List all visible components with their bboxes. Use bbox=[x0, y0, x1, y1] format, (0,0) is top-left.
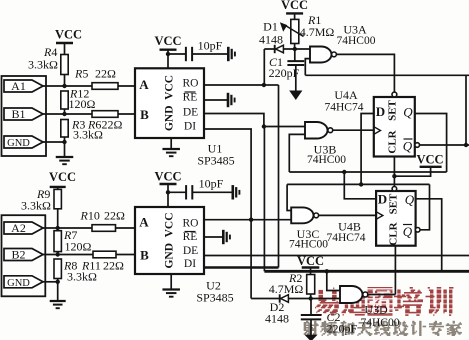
node D2/R2/C2 bbox=[309, 296, 313, 300]
wire R12 to node B1 bbox=[64, 109, 66, 114]
wire U3A output to SET1 bbox=[336, 54, 394, 92]
node A2 junction bbox=[56, 226, 60, 230]
wire U3C output to clock2 bbox=[319, 214, 377, 216]
node D1/R1/C1 bbox=[293, 47, 297, 51]
svg-text:B: B bbox=[140, 107, 149, 122]
svg-text:74HC00: 74HC00 bbox=[307, 154, 346, 166]
wire R3 to GND row bbox=[64, 137, 66, 157]
svg-text:D: D bbox=[378, 192, 387, 207]
svg-text:A1: A1 bbox=[11, 79, 26, 93]
svg-text:DE: DE bbox=[183, 107, 198, 119]
power VCC (R2 top) bbox=[302, 266, 320, 268]
power VCC (R9 top) bbox=[50, 186, 66, 188]
svg-text:22Ω: 22Ω bbox=[95, 67, 116, 81]
wire VCC to R2 bbox=[310, 268, 312, 275]
net flag B1 bbox=[4, 108, 43, 120]
wire DI1 bbox=[204, 129, 251, 220]
node U2 VCC junction bbox=[166, 190, 170, 194]
capacitor 10pF (U2) bbox=[185, 185, 187, 199]
nand gate U3B 74HC00 bbox=[305, 122, 328, 139]
svg-text:3.3kΩ: 3.3kΩ bbox=[67, 270, 97, 284]
capacitor 10pF (U1) bbox=[185, 47, 187, 61]
capacitor C2 220pF bbox=[301, 314, 321, 316]
svg-text:SP3485: SP3485 bbox=[196, 291, 233, 305]
node CLR1/VCC junction bbox=[392, 174, 396, 178]
wire GND2 row bbox=[42, 281, 58, 283]
wire Q2bar to L3 bbox=[420, 184, 430, 229]
svg-text:22Ω: 22Ω bbox=[103, 259, 124, 273]
ground (10pF U2) bbox=[232, 185, 235, 199]
svg-text:74HC00: 74HC00 bbox=[337, 35, 376, 47]
svg-text:10pF: 10pF bbox=[199, 177, 224, 191]
wire B2 row bbox=[42, 254, 93, 256]
svg-text:74HC74: 74HC74 bbox=[325, 102, 364, 114]
svg-text:4.7MΩ: 4.7MΩ bbox=[300, 25, 335, 39]
svg-text:VCC: VCC bbox=[416, 153, 443, 167]
resistor R4 bbox=[61, 55, 68, 75]
node RO2 junction bbox=[249, 218, 253, 222]
power VCC (R1 top) bbox=[286, 12, 303, 14]
net flag B2 bbox=[4, 249, 43, 261]
svg-text:GND VCC: GND VCC bbox=[164, 75, 176, 131]
ground (10pF U1) bbox=[227, 47, 230, 61]
wire VCC to U2 bbox=[167, 184, 169, 207]
node GND junction bbox=[62, 140, 66, 144]
svg-text:RO: RO bbox=[183, 78, 199, 90]
node GND2 junction bbox=[56, 280, 60, 284]
svg-text:Q: Q bbox=[403, 105, 413, 120]
svg-text:VCC: VCC bbox=[281, 0, 308, 12]
svg-text:4148: 4148 bbox=[259, 32, 283, 46]
resistor R8 bbox=[54, 259, 61, 279]
net flag A1 bbox=[4, 80, 43, 92]
ground GND2 bbox=[50, 300, 66, 302]
wire RO1 bbox=[204, 84, 264, 86]
wire V2 DE1 net down bbox=[263, 127, 265, 268]
svg-text:GND: GND bbox=[7, 138, 30, 149]
svg-text:SET: SET bbox=[388, 193, 400, 214]
wire cap to ground bbox=[192, 53, 227, 55]
svg-text:R10: R10 bbox=[80, 209, 100, 223]
node L3 junction bbox=[359, 182, 363, 186]
svg-text:3.3kΩ: 3.3kΩ bbox=[73, 128, 103, 142]
wire L1 net Q1 bbox=[289, 171, 446, 173]
svg-text:4.7MΩ: 4.7MΩ bbox=[269, 282, 304, 296]
ground (RE2) bbox=[222, 230, 225, 244]
wire C2 to ground bbox=[310, 319, 312, 335]
watermark text layer bbox=[333, 288, 334, 290]
svg-text:Q: Q bbox=[403, 139, 413, 154]
wire R1 to node bbox=[294, 44, 296, 50]
svg-text:74HC00: 74HC00 bbox=[289, 239, 328, 251]
wire R11 to U2.B bbox=[116, 254, 135, 256]
wire RE2 stub bbox=[204, 236, 223, 238]
svg-text:10pF: 10pF bbox=[198, 39, 223, 53]
resistor R12 bbox=[61, 91, 68, 109]
wire DE1 to U3B input bbox=[264, 126, 305, 128]
wire VCC to R4 bbox=[64, 43, 66, 55]
svg-text:RE: RE bbox=[183, 92, 198, 104]
svg-text:R5: R5 bbox=[74, 67, 88, 81]
wire VCC to R9 bbox=[57, 187, 59, 190]
transceiver U1 SP3485 box bbox=[135, 68, 204, 138]
svg-text:B2: B2 bbox=[11, 248, 25, 262]
node B2 junction bbox=[56, 252, 60, 256]
wire V3 RO1 net down bbox=[278, 85, 280, 268]
wire GND row bbox=[42, 141, 65, 143]
transceiver U2 SP3485 box bbox=[135, 207, 204, 274]
ground (C1) bbox=[289, 91, 302, 101]
node L1 junction bbox=[342, 170, 346, 174]
svg-text:Q: Q bbox=[403, 224, 413, 239]
svg-text:CLR: CLR bbox=[387, 129, 399, 153]
svg-text:U4A: U4A bbox=[334, 88, 358, 102]
svg-text:SP3485: SP3485 bbox=[197, 154, 234, 168]
wire Q2 feedback bbox=[416, 199, 442, 271]
diode D2 4148 bbox=[279, 294, 281, 302]
wire R2 to D2 node bbox=[310, 294, 312, 299]
diode D1 4148 bbox=[274, 45, 276, 53]
wire to C3 cap bbox=[168, 53, 186, 55]
wire VCC to R1 bbox=[294, 13, 296, 19]
wire B1 row bbox=[42, 113, 92, 115]
svg-text:RO: RO bbox=[183, 218, 199, 230]
svg-text:B: B bbox=[140, 248, 149, 263]
svg-text:120Ω: 120Ω bbox=[69, 97, 96, 111]
resistor R2 bbox=[307, 275, 315, 295]
wire U1 GND pin bbox=[170, 138, 172, 149]
svg-text:A: A bbox=[139, 77, 149, 92]
wire U3D output bbox=[368, 294, 396, 296]
wire R8 to GND2 row bbox=[57, 279, 59, 302]
svg-text:120Ω: 120Ω bbox=[65, 240, 92, 254]
ground (RE1) bbox=[227, 93, 230, 107]
nand gate U3C 74HC00 bbox=[291, 207, 313, 223]
svg-text:U3D: U3D bbox=[364, 303, 388, 317]
resistor R6 bbox=[92, 111, 118, 118]
wire VCC mid stem bbox=[394, 167, 430, 176]
svg-text:Q: Q bbox=[405, 192, 415, 207]
svg-text:CLR: CLR bbox=[388, 221, 400, 245]
svg-text:DI: DI bbox=[184, 258, 196, 270]
wire D2 node to C2 bbox=[310, 299, 312, 316]
node RO1/D1 junction bbox=[262, 83, 266, 87]
wire cap2 to ground bbox=[192, 191, 232, 193]
wire Q1bar out bbox=[420, 144, 469, 146]
node A1 junction bbox=[62, 84, 66, 88]
resistor R7 bbox=[54, 231, 61, 252]
svg-text:GND: GND bbox=[7, 278, 30, 289]
wire DE2 long bbox=[204, 255, 469, 257]
svg-text:DE: DE bbox=[183, 245, 198, 257]
wire RE1 stub bbox=[204, 99, 227, 101]
wire V1 to D2 node bbox=[250, 220, 252, 299]
wire R4 to node A1 bbox=[64, 75, 66, 87]
wire DE1 bbox=[204, 114, 264, 127]
wire L1 to U3B input2 bbox=[289, 134, 305, 172]
power VCC (mid right) bbox=[420, 166, 442, 168]
ground GND1 bbox=[56, 156, 74, 158]
net flag GND2 bbox=[4, 276, 43, 288]
power VCC (U1 top) bbox=[160, 49, 177, 51]
node U1 VCC junction bbox=[166, 52, 170, 56]
wire thick stub up bbox=[263, 268, 265, 272]
wire D1 row bbox=[264, 48, 310, 50]
wire A2 row bbox=[42, 227, 92, 229]
power VCC (U2 top) bbox=[160, 183, 177, 185]
svg-text:74HC00: 74HC00 bbox=[361, 317, 400, 329]
wire net Q1bar long line bbox=[305, 74, 469, 76]
svg-text:22Ω: 22Ω bbox=[102, 118, 123, 132]
wire C1 to ground bbox=[295, 65, 297, 91]
wire U3A input2 corner bbox=[305, 59, 310, 76]
flipflop U4A 74HC74 box bbox=[374, 97, 415, 157]
wire L1 to U4B.D bbox=[344, 172, 376, 199]
wire Q1bar right drop bbox=[465, 75, 467, 145]
wire R10 to U2.A bbox=[116, 227, 136, 229]
svg-text:VCC: VCC bbox=[297, 254, 324, 268]
ground (U1) bbox=[162, 148, 180, 150]
connector box J2 bbox=[2, 215, 46, 296]
wire U2 GND pin bbox=[170, 274, 172, 290]
svg-text:SET: SET bbox=[387, 99, 399, 120]
wire thick net line bbox=[264, 270, 469, 273]
capacitor C1 220pF bbox=[287, 60, 304, 62]
wire to U3D input1 bbox=[327, 271, 340, 290]
wire RO2 to U3C bbox=[204, 219, 291, 221]
wire Q1 feedback bbox=[415, 114, 447, 173]
resistor R1 bbox=[291, 19, 299, 43]
wire L3 net Q2bar bbox=[287, 183, 429, 185]
net flag A2 bbox=[4, 222, 43, 234]
svg-text:VCC: VCC bbox=[49, 170, 76, 184]
svg-text:74HC74: 74HC74 bbox=[327, 232, 366, 244]
wire VCC to U1 bbox=[167, 50, 169, 69]
node B1 junction bbox=[62, 112, 66, 116]
wire R9 to node A2 bbox=[57, 209, 59, 228]
svg-text:4148: 4148 bbox=[265, 312, 289, 326]
resistor R9 bbox=[54, 189, 61, 208]
svg-text:22Ω: 22Ω bbox=[104, 209, 125, 223]
node Q1bar junction bbox=[464, 143, 468, 147]
connector box J1 bbox=[2, 76, 47, 156]
ground (U2) bbox=[162, 288, 180, 290]
wire RO1 jog bbox=[264, 84, 279, 86]
node DE1 junction bbox=[262, 124, 266, 128]
wire L3 to U3C input1 bbox=[287, 184, 291, 210]
resistor R10 bbox=[92, 225, 116, 232]
wire U3B output to clock1 bbox=[333, 129, 374, 131]
wire U4A.D from L3 bbox=[361, 114, 374, 185]
resistor R3 bbox=[61, 120, 68, 138]
node thick junction bbox=[325, 269, 329, 273]
wire R7 to node B2 bbox=[57, 252, 59, 255]
svg-text:3.3kΩ: 3.3kΩ bbox=[28, 58, 58, 72]
svg-text:VCC: VCC bbox=[55, 28, 82, 42]
resistor R5 bbox=[92, 83, 118, 90]
svg-text:DI: DI bbox=[184, 121, 196, 133]
nand gate U3A 74HC00 bbox=[310, 47, 332, 63]
svg-text:220pF: 220pF bbox=[326, 322, 357, 336]
resistor R11 bbox=[93, 251, 116, 258]
wire CLR1 to SET2 bbox=[393, 157, 395, 187]
svg-text:GND VCC: GND VCC bbox=[164, 212, 176, 268]
wire D2 row bbox=[251, 298, 340, 300]
wire to C4 cap bbox=[168, 191, 186, 193]
wire CLR2 stem to U3D out bbox=[394, 246, 396, 295]
wire DI2 bbox=[204, 266, 279, 268]
ground (C2) bbox=[304, 335, 317, 340]
wire R5 to U1.A bbox=[118, 85, 135, 87]
svg-text:RE: RE bbox=[183, 231, 198, 243]
svg-text:A: A bbox=[139, 215, 149, 230]
wire D1 corner to RO1 bbox=[263, 49, 265, 85]
wire R6 to U1.B bbox=[118, 113, 135, 115]
flipflop U4B 74HC74 box bbox=[376, 191, 416, 246]
svg-text:VCC: VCC bbox=[154, 34, 181, 48]
nand gate U3D 74HC00 bbox=[340, 286, 363, 303]
power VCC (R4 top) bbox=[56, 42, 73, 44]
wire A1 row bbox=[42, 85, 92, 87]
svg-text:VCC: VCC bbox=[154, 170, 181, 184]
net flag GND bbox=[4, 136, 43, 148]
svg-text:3.3kΩ: 3.3kΩ bbox=[21, 199, 51, 213]
wire node to C1 bbox=[294, 49, 296, 61]
svg-text:A2: A2 bbox=[11, 221, 26, 235]
svg-text:D: D bbox=[376, 104, 385, 119]
svg-text:B1: B1 bbox=[11, 107, 25, 121]
